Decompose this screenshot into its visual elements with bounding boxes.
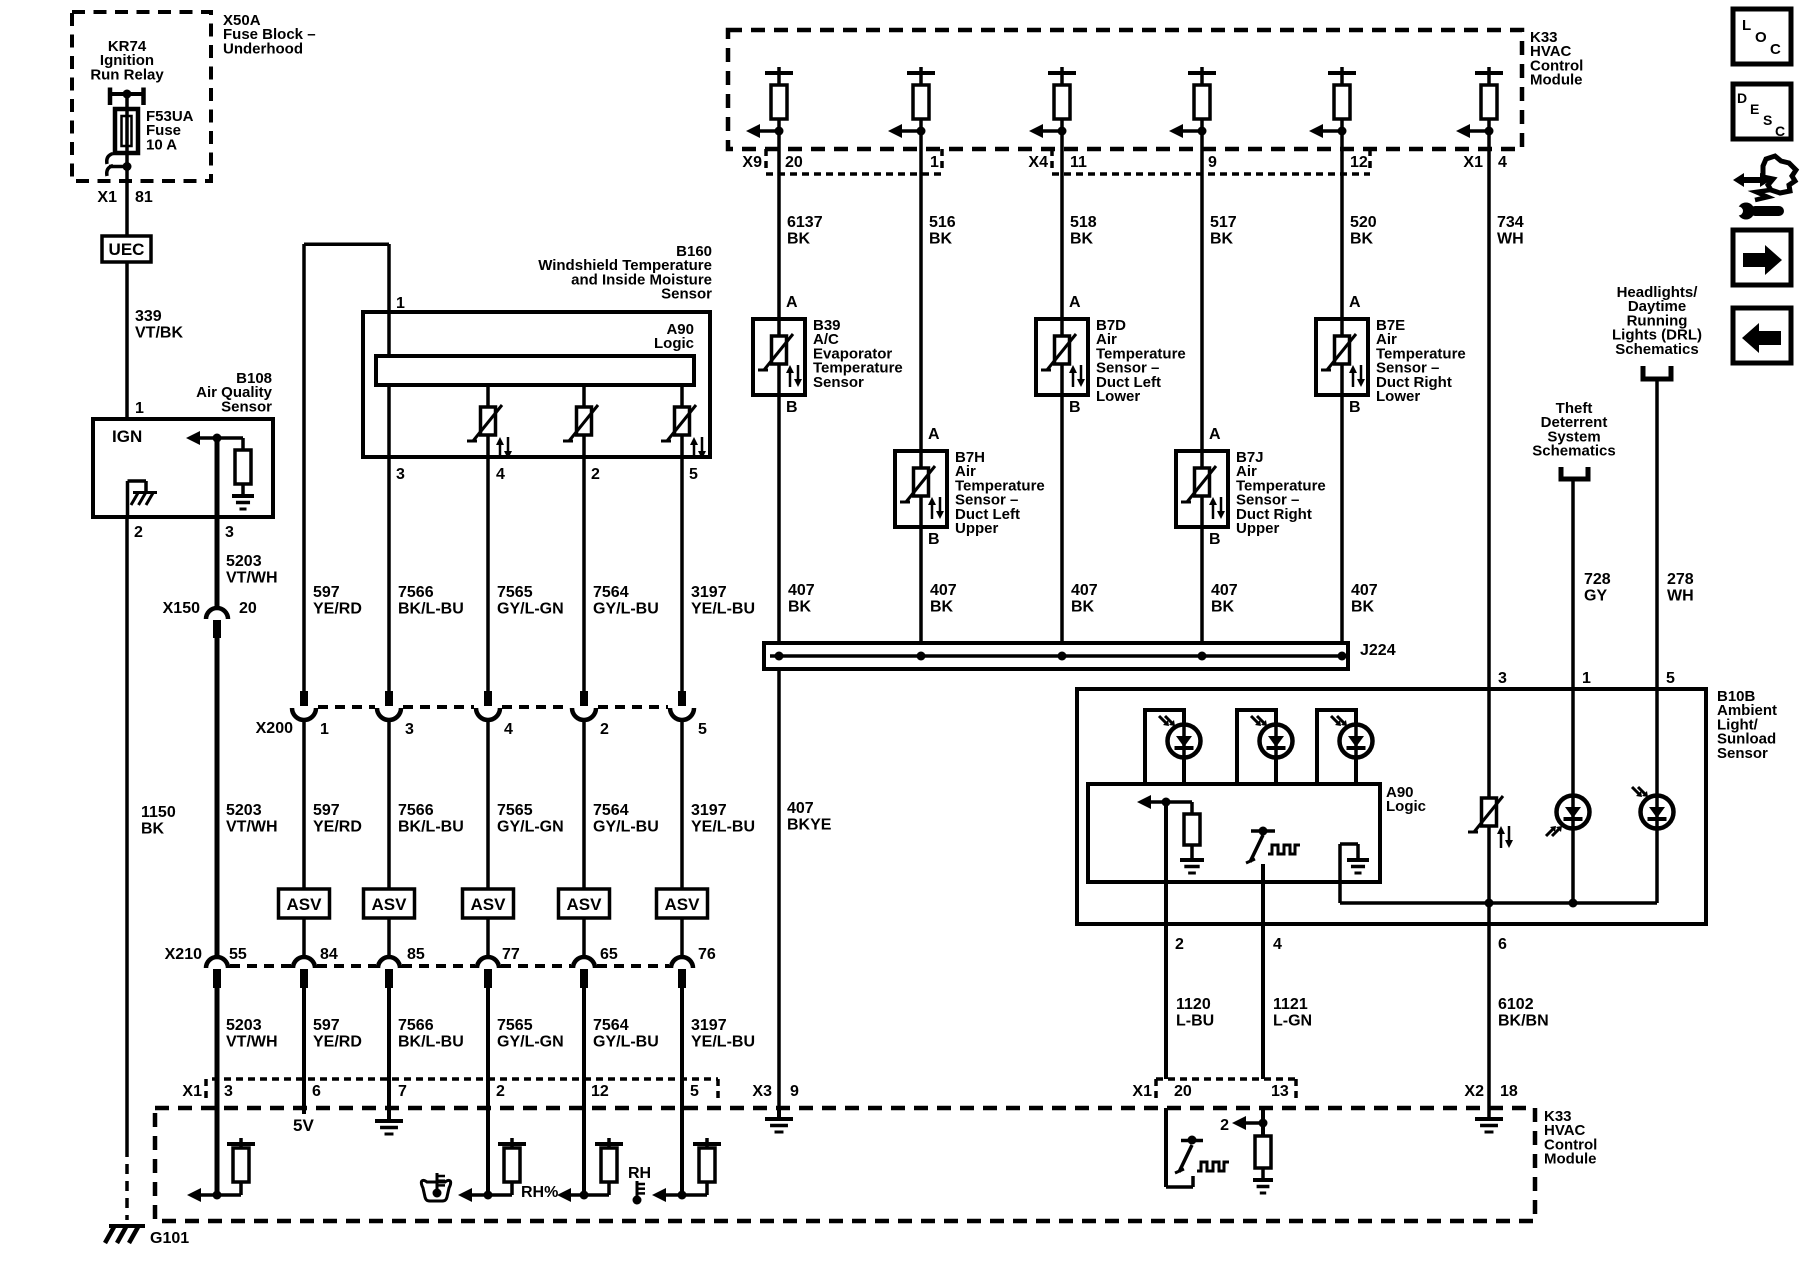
svg-text:Run Relay: Run Relay: [90, 66, 164, 83]
svg-text:VT/BK: VT/BK: [135, 325, 183, 342]
A90 logic box: [1088, 784, 1380, 882]
svg-text:C: C: [1770, 41, 1781, 58]
svg-text:3197: 3197: [691, 802, 727, 819]
svg-text:WH: WH: [1497, 231, 1524, 248]
ASV box: [279, 889, 330, 918]
K33 input circuit pin 3: [215, 1108, 220, 1195]
svg-text:X3: X3: [752, 1083, 772, 1100]
svg-text:X4: X4: [1028, 154, 1048, 171]
internal ground bus: [1340, 901, 1657, 905]
svg-text:3197: 3197: [691, 1017, 727, 1034]
svg-text:YE/L-BU: YE/L-BU: [691, 819, 755, 836]
K33 HVAC Control Module box (bottom): [155, 1108, 1535, 1221]
svg-text:RH%: RH%: [521, 1184, 558, 1201]
fuse F53UA: [115, 109, 138, 153]
svg-text:D: D: [1737, 90, 1747, 106]
svg-text:20: 20: [1174, 1083, 1192, 1100]
svg-text:407: 407: [1211, 582, 1238, 599]
photodiode: [1145, 710, 1184, 784]
wire 5203 VT/WH: [215, 638, 220, 957]
K33 sensor feed resistor: [919, 67, 923, 73]
svg-text:Module: Module: [1530, 72, 1583, 89]
svg-text:Sensor: Sensor: [661, 286, 712, 303]
svg-text:A: A: [786, 294, 798, 311]
svg-text:2: 2: [600, 721, 609, 738]
svg-text:Schematics: Schematics: [1615, 341, 1698, 358]
svg-text:GY/L-BU: GY/L-BU: [593, 601, 659, 618]
svg-text:339: 339: [135, 308, 162, 325]
fuse block X50A dashed box: [72, 12, 211, 181]
svg-text:O: O: [1755, 29, 1767, 46]
svg-text:7564: 7564: [593, 802, 629, 819]
svg-text:BK: BK: [1350, 231, 1374, 248]
ground: [241, 484, 245, 495]
svg-text:BK: BK: [788, 599, 812, 616]
svg-text:84: 84: [320, 946, 338, 963]
svg-text:BK: BK: [1071, 599, 1095, 616]
svg-text:9: 9: [790, 1083, 799, 1100]
svg-text:3: 3: [224, 1083, 233, 1100]
connector X4 dotted box: [1050, 149, 1054, 172]
ground X2 pin 18: [1487, 1108, 1491, 1119]
svg-text:B: B: [1069, 399, 1081, 416]
svg-text:516: 516: [929, 214, 956, 231]
ground G101: [109, 1224, 145, 1228]
svg-text:YE/RD: YE/RD: [313, 819, 362, 836]
ASV box: [657, 889, 708, 918]
svg-text:7565: 7565: [497, 1017, 533, 1034]
svg-text:YE/RD: YE/RD: [313, 601, 362, 618]
svg-text:9: 9: [1208, 154, 1217, 171]
svg-text:BK: BK: [141, 821, 165, 838]
A90 PWM switch: [1251, 829, 1275, 833]
svg-text:YE/RD: YE/RD: [313, 1034, 362, 1051]
B160 sensor box: [363, 312, 710, 457]
thermistor (inside temp): [675, 407, 690, 435]
A90 internal resistor: [1166, 800, 1192, 804]
K33 signal arrow: [1198, 127, 1207, 136]
svg-text:3: 3: [405, 721, 414, 738]
B108 internal resistor: [217, 436, 243, 440]
svg-text:VT/WH: VT/WH: [226, 570, 278, 587]
wire: [1200, 131, 1204, 149]
wires into X200: [387, 457, 391, 692]
svg-text:7566: 7566: [398, 1017, 434, 1034]
svg-text:12: 12: [1350, 154, 1368, 171]
ground X3 pin 9: [777, 1108, 781, 1119]
svg-text:Upper: Upper: [1236, 520, 1280, 537]
svg-text:BK: BK: [930, 599, 954, 616]
svg-text:VT/WH: VT/WH: [226, 819, 278, 836]
svg-text:X150: X150: [163, 600, 200, 617]
svg-text:BK: BK: [787, 231, 811, 248]
K33 signal arrow: [1338, 127, 1347, 136]
svg-text:2: 2: [1220, 1117, 1229, 1134]
B10B bottom pins 2 4 6: [1164, 802, 1168, 1079]
B108 Air Quality Sensor box: [93, 419, 273, 517]
svg-text:J224: J224: [1360, 642, 1396, 659]
svg-text:5: 5: [698, 721, 707, 738]
wire 278 WH: [1655, 379, 1659, 689]
svg-text:3197: 3197: [691, 584, 727, 601]
sensor B39 box: [753, 319, 805, 395]
svg-text:597: 597: [313, 802, 340, 819]
svg-text:L-GN: L-GN: [1273, 1013, 1312, 1030]
wire: [1340, 131, 1344, 149]
svg-text:4: 4: [1498, 154, 1507, 171]
svg-text:407: 407: [1071, 582, 1098, 599]
sensor B7E box: [1316, 319, 1368, 395]
svg-text:Lower: Lower: [1096, 388, 1140, 405]
svg-text:55: 55: [229, 946, 247, 963]
wires below X200: [302, 720, 306, 889]
svg-text:20: 20: [239, 600, 257, 617]
svg-text:20: 20: [785, 154, 803, 171]
svg-text:734: 734: [1497, 214, 1524, 231]
svg-text:Schematics: Schematics: [1532, 443, 1615, 460]
svg-text:407: 407: [787, 800, 814, 817]
svg-text:VT/WH: VT/WH: [226, 1034, 278, 1051]
K33 signal arrow: [917, 127, 926, 136]
svg-text:5: 5: [1666, 670, 1675, 687]
svg-text:1150: 1150: [141, 804, 176, 821]
svg-text:3: 3: [225, 524, 234, 541]
K33 sensor feed resistor: [1340, 67, 1344, 73]
svg-text:L-BU: L-BU: [1176, 1013, 1214, 1030]
svg-text:65: 65: [600, 946, 618, 963]
wire 728 GY: [1571, 479, 1575, 689]
svg-text:B: B: [928, 531, 940, 548]
svg-text:5203: 5203: [226, 802, 262, 819]
svg-text:278: 278: [1667, 571, 1694, 588]
svg-text:BK: BK: [1211, 599, 1235, 616]
svg-text:5: 5: [689, 466, 698, 483]
A90 internal ground: [1340, 842, 1358, 846]
svg-text:4: 4: [1273, 936, 1282, 953]
connector X9 dotted box: [764, 149, 768, 172]
sensor wires with labels: [777, 149, 781, 319]
svg-text:B: B: [786, 399, 798, 416]
K33 signal arrow: [775, 127, 784, 136]
svg-text:2: 2: [591, 466, 600, 483]
B108 internal signal arrow: [186, 431, 200, 445]
svg-text:7566: 7566: [398, 584, 434, 601]
K33 input circuit pin 5: [680, 1079, 684, 1195]
svg-text:BKYE: BKYE: [787, 817, 832, 834]
svg-text:12: 12: [591, 1083, 609, 1100]
wire: [1487, 131, 1491, 149]
ground pin 7: [387, 1079, 391, 1121]
svg-text:1: 1: [1582, 670, 1591, 687]
relay KR74 contact: [108, 88, 113, 106]
wire: [1060, 131, 1064, 149]
svg-text:WH: WH: [1667, 588, 1694, 605]
ASV box: [364, 889, 415, 918]
svg-text:S: S: [1763, 112, 1772, 128]
svg-text:Lower: Lower: [1376, 388, 1420, 405]
svg-text:BK: BK: [1070, 231, 1094, 248]
thermistor (moisture): [577, 407, 592, 435]
svg-text:BK: BK: [1210, 231, 1234, 248]
svg-text:85: 85: [407, 946, 425, 963]
svg-text:6102: 6102: [1498, 996, 1534, 1013]
svg-text:13: 13: [1271, 1083, 1289, 1100]
wire: [777, 131, 781, 149]
svg-text:1121: 1121: [1273, 996, 1308, 1013]
svg-text:2: 2: [134, 524, 143, 541]
svg-text:GY/L-GN: GY/L-GN: [497, 819, 564, 836]
photodiode (ambient light): [1655, 689, 1659, 796]
svg-text:Sensor: Sensor: [813, 374, 864, 391]
next button: [1733, 230, 1791, 285]
svg-text:X1: X1: [97, 189, 117, 206]
wire 407 BKYE: [777, 669, 781, 1108]
K33 signal arrow: [1058, 127, 1067, 136]
svg-text:ASV: ASV: [372, 895, 408, 914]
svg-text:GY/L-BU: GY/L-BU: [593, 819, 659, 836]
svg-text:YE/L-BU: YE/L-BU: [691, 1034, 755, 1051]
svg-text:X9: X9: [742, 154, 762, 171]
svg-text:6: 6: [1498, 936, 1507, 953]
svg-text:GY/L-GN: GY/L-GN: [497, 1034, 564, 1051]
svg-text:B: B: [1209, 531, 1221, 548]
svg-text:GY/L-BU: GY/L-BU: [593, 1034, 659, 1051]
svg-text:5203: 5203: [226, 1017, 262, 1034]
svg-text:ASV: ASV: [471, 895, 507, 914]
svg-text:407: 407: [1351, 582, 1378, 599]
B108 internal chassis ground: [126, 481, 130, 517]
terminal under fuse: [125, 153, 129, 236]
wire: [125, 94, 129, 109]
wire 339 VT/BK: [125, 262, 129, 419]
svg-text:ASV: ASV: [665, 895, 701, 914]
svg-text:Sensor: Sensor: [1717, 745, 1768, 762]
svg-text:UEC: UEC: [109, 240, 145, 259]
svg-text:L: L: [1742, 17, 1751, 34]
svg-text:BK/L-BU: BK/L-BU: [398, 819, 464, 836]
svg-text:7566: 7566: [398, 802, 434, 819]
windshield temperature icon: [421, 1180, 450, 1201]
splice pack J224: [764, 643, 1348, 669]
svg-text:X2: X2: [1464, 1083, 1484, 1100]
svg-text:1: 1: [320, 721, 329, 738]
svg-text:YE/L-BU: YE/L-BU: [691, 601, 755, 618]
svg-text:76: 76: [698, 946, 716, 963]
ASV box: [463, 889, 514, 918]
svg-text:IGN: IGN: [112, 427, 142, 446]
svg-text:517: 517: [1210, 214, 1237, 231]
K33 pulldown resistor: [1261, 1108, 1265, 1136]
wire to B160 pin 1: [304, 242, 389, 246]
B10B sensor box: [1077, 689, 1706, 924]
svg-text:518: 518: [1070, 214, 1097, 231]
svg-text:BK/L-BU: BK/L-BU: [398, 601, 464, 618]
photodiode: [1317, 710, 1356, 784]
svg-text:X200: X200: [256, 720, 293, 737]
svg-text:5: 5: [690, 1083, 699, 1100]
svg-text:Logic: Logic: [1386, 798, 1426, 815]
svg-text:BK: BK: [929, 231, 953, 248]
connector X1 dotted box: [212, 1077, 718, 1081]
svg-text:728: 728: [1584, 571, 1611, 588]
svg-text:ASV: ASV: [567, 895, 603, 914]
svg-text:Module: Module: [1544, 1151, 1597, 1168]
svg-text:2: 2: [496, 1083, 505, 1100]
svg-text:3: 3: [396, 466, 405, 483]
K33 input circuit pin 2 (RH%): [486, 1079, 490, 1195]
svg-text:5203: 5203: [226, 553, 262, 570]
svg-text:BK: BK: [1351, 599, 1375, 616]
svg-text:Underhood: Underhood: [223, 40, 303, 57]
LOC button: [1733, 9, 1791, 64]
K33 sensor feed resistor: [1487, 67, 1491, 73]
K33 sensor feed resistor: [1200, 67, 1204, 73]
svg-text:ASV: ASV: [287, 895, 323, 914]
svg-text:C: C: [1775, 123, 1785, 139]
thermistor (ambient temp): [1487, 689, 1491, 903]
sensor B7J box: [1176, 451, 1228, 527]
photodiode (sunload): [1571, 689, 1575, 796]
svg-text:6: 6: [312, 1083, 321, 1100]
connector X1 dotted box (pins 20 13): [1156, 1077, 1296, 1081]
svg-text:7565: 7565: [497, 584, 533, 601]
wire 5203 VT/WH: [215, 438, 220, 607]
K33 sensor feed resistor: [1060, 67, 1064, 73]
svg-text:1: 1: [135, 400, 144, 417]
svg-text:520: 520: [1350, 214, 1377, 231]
svg-text:Upper: Upper: [955, 520, 999, 537]
svg-text:407: 407: [788, 582, 815, 599]
svg-text:G101: G101: [150, 1230, 189, 1247]
svg-text:7: 7: [398, 1083, 407, 1100]
svg-text:1: 1: [930, 154, 939, 171]
5V supply: [302, 1079, 306, 1114]
connector X210: [206, 957, 228, 968]
svg-text:7565: 7565: [497, 802, 533, 819]
thermistor (windshield temp): [481, 407, 496, 435]
svg-text:1120: 1120: [1176, 996, 1211, 1013]
svg-text:7564: 7564: [593, 584, 629, 601]
svg-text:5V: 5V: [293, 1116, 314, 1135]
svg-text:GY/L-GN: GY/L-GN: [497, 601, 564, 618]
svg-text:10 A: 10 A: [146, 136, 177, 153]
svg-text:Sensor: Sensor: [221, 398, 272, 415]
svg-text:597: 597: [313, 584, 340, 601]
K33 signal arrow: [1485, 127, 1494, 136]
sensor B7H box: [895, 451, 947, 527]
svg-text:A: A: [1069, 294, 1081, 311]
svg-text:7564: 7564: [593, 1017, 629, 1034]
back button: [1733, 308, 1791, 363]
svg-text:1: 1: [396, 295, 405, 312]
svg-text:Logic: Logic: [654, 335, 694, 352]
svg-text:407: 407: [930, 582, 957, 599]
svg-text:A: A: [1209, 426, 1221, 443]
ground: [1190, 845, 1194, 859]
svg-text:4: 4: [496, 466, 505, 483]
A90 output arrow: [1137, 795, 1151, 809]
svg-text:A: A: [1349, 294, 1361, 311]
diagnostic icon: [1763, 156, 1796, 193]
K33 input circuit pin 12: [582, 1079, 586, 1195]
407 BK wires to splice: [777, 395, 781, 643]
K33 sensor feed resistor: [777, 67, 781, 73]
svg-text:6137: 6137: [787, 214, 823, 231]
K33 HVAC Control Module box (top): [728, 30, 1522, 149]
connector X200: [300, 691, 308, 706]
svg-text:81: 81: [135, 189, 153, 206]
svg-text:A: A: [928, 426, 940, 443]
photodiode: [1237, 710, 1276, 784]
svg-text:77: 77: [502, 946, 520, 963]
DESC button: [1733, 84, 1791, 139]
svg-text:11: 11: [1070, 154, 1087, 171]
svg-text:RH: RH: [628, 1165, 651, 1182]
ASV box: [559, 889, 610, 918]
svg-text:3: 3: [1498, 670, 1507, 687]
svg-text:18: 18: [1500, 1083, 1518, 1100]
ground: [1261, 1168, 1265, 1179]
svg-text:597: 597: [313, 1017, 340, 1034]
svg-text:X1: X1: [1463, 154, 1483, 171]
svg-text:GY: GY: [1584, 588, 1607, 605]
svg-text:X1: X1: [182, 1083, 202, 1100]
K33 PWM switch input: [1164, 1108, 1168, 1187]
svg-text:X210: X210: [165, 946, 202, 963]
svg-text:BK/BN: BK/BN: [1498, 1013, 1549, 1030]
wire 1150 BK: [125, 517, 129, 1147]
svg-text:B: B: [1349, 399, 1361, 416]
sensor B7D box: [1036, 319, 1088, 395]
UEC box: [102, 236, 151, 262]
svg-text:E: E: [1750, 101, 1759, 117]
wire: [919, 131, 923, 149]
B160 internal wires: [387, 312, 391, 356]
svg-text:4: 4: [504, 721, 513, 738]
svg-text:BK/L-BU: BK/L-BU: [398, 1034, 464, 1051]
svg-text:X1: X1: [1132, 1083, 1152, 1100]
wires below X210: [215, 988, 220, 1195]
svg-text:2: 2: [1175, 936, 1184, 953]
